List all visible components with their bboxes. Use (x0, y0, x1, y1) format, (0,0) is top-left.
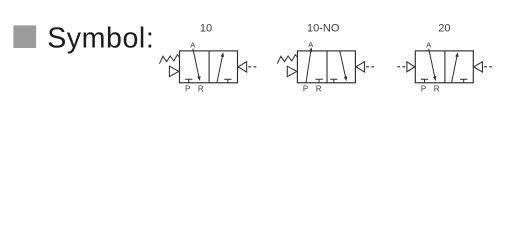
svg-text:10: 10 (200, 23, 212, 35)
svg-text:P: P (303, 84, 308, 93)
svg-text:R: R (316, 84, 322, 93)
svg-text:P: P (421, 84, 426, 93)
svg-text:A: A (190, 41, 195, 50)
svg-text:R: R (198, 84, 204, 93)
svg-text:A: A (426, 41, 431, 50)
svg-text:P: P (185, 84, 190, 93)
svg-text:10-NO: 10-NO (307, 23, 340, 35)
svg-text:Symbol:: Symbol: (47, 23, 154, 55)
svg-text:R: R (434, 84, 440, 93)
svg-text:20: 20 (438, 23, 450, 35)
svg-text:A: A (308, 40, 313, 49)
